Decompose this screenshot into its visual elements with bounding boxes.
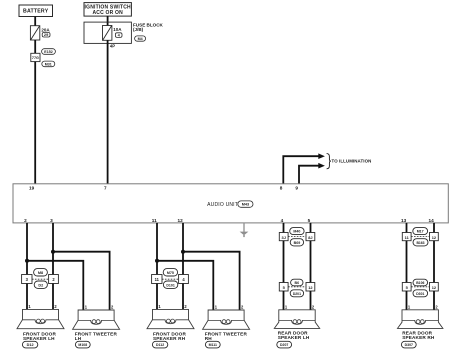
svg-text:AUDIO UNIT: AUDIO UNIT — [207, 202, 238, 208]
connector oval D307 — [401, 341, 416, 348]
svg-text:3: 3 — [50, 218, 53, 223]
svg-text:77G: 77G — [32, 56, 39, 60]
wire pin 8 to illumination — [283, 156, 318, 184]
fuse F2 10A — [103, 26, 112, 41]
wire 8J to cell 12 — [310, 241, 312, 283]
battery B1 — [19, 5, 53, 17]
connector oval D201 — [290, 290, 303, 297]
wire pin 13 down — [406, 223, 408, 233]
wire cell4 to speaker pin 2 — [182, 284, 184, 310]
wire pin 14 down — [433, 223, 435, 233]
wire pin 2 down — [26, 223, 28, 275]
ground symbol — [240, 232, 249, 236]
arrow illumination 2 — [318, 163, 325, 169]
svg-text:4P: 4P — [110, 44, 115, 49]
connector M40/B69 cell 8J — [306, 233, 315, 241]
rear door speaker LH symbol — [274, 310, 319, 329]
connector oval M111 — [205, 341, 220, 348]
connector oval D112 — [152, 341, 167, 348]
connector oval M17 — [413, 228, 428, 235]
connector M17/B163 cell 11 — [402, 233, 411, 241]
connector B6/D201 cell 12 — [306, 283, 315, 292]
svg-text:TO ILLUMINATION: TO ILLUMINATION — [332, 159, 372, 164]
svg-text:13: 13 — [401, 218, 407, 223]
dashed connector divider — [288, 236, 306, 238]
svg-text:5: 5 — [308, 218, 311, 223]
connector oval M8 — [34, 269, 48, 276]
svg-text:B69: B69 — [294, 241, 301, 245]
front door speaker LH symbol — [17, 309, 64, 328]
svg-text:D112: D112 — [156, 343, 164, 347]
connector oval D2 — [34, 281, 47, 288]
svg-text:M43: M43 — [242, 203, 249, 207]
connector oval M75 — [163, 269, 177, 276]
connector oval M4 — [135, 36, 146, 41]
ignition switch source box — [84, 3, 131, 17]
wire cell12 to speaker pin 2 — [310, 291, 312, 310]
connector oval M43 — [238, 201, 253, 207]
wire cell12 to cell 12 — [433, 241, 435, 283]
wire cell2 to speaker pin 2 — [52, 284, 54, 310]
branch wire to tweeter LH pin 1 — [27, 261, 83, 311]
svg-text:9: 9 — [295, 185, 298, 190]
connector M75/D101 cell 11 — [152, 275, 162, 284]
connector oval D301 — [413, 290, 428, 297]
svg-text:8: 8 — [280, 185, 283, 190]
svg-text:D12: D12 — [27, 343, 34, 347]
svg-text:11: 11 — [155, 277, 160, 282]
svg-text:M111: M111 — [209, 343, 217, 347]
svg-text:M108: M108 — [78, 343, 87, 347]
connector oval D101 — [163, 281, 177, 288]
svg-text:RH: RH — [205, 336, 213, 341]
connector oval B163 — [413, 239, 428, 246]
svg-text:D307: D307 — [405, 343, 413, 347]
svg-text:B163: B163 — [416, 241, 424, 245]
svg-text:SPEAKER LH: SPEAKER LH — [23, 336, 55, 341]
svg-text:M17: M17 — [417, 230, 424, 234]
connector oval D12 — [22, 341, 37, 348]
connector M8/D2 cell 3 — [22, 275, 32, 284]
wire pin 9 to illumination — [299, 166, 319, 184]
wire pin 5 down — [310, 223, 312, 233]
junction dot on pin2 wire — [25, 259, 29, 263]
connector M40/B69 cell 3J — [279, 233, 288, 241]
connector oval M108 — [75, 341, 90, 348]
connector oval B6 — [291, 279, 303, 286]
wire cell5 to speaker pin 1 — [406, 291, 408, 310]
wire pin 12 down — [182, 223, 184, 275]
fuse F1 20A — [30, 26, 39, 40]
dashed connector divider — [288, 286, 306, 288]
junction dot on pin12 wire — [181, 250, 185, 254]
svg-text:12: 12 — [177, 218, 183, 223]
connector oval D207 — [277, 341, 292, 348]
wire cell12 to speaker pin 2 — [433, 291, 435, 310]
svg-text:M8: M8 — [38, 271, 43, 275]
connector oval M31 — [42, 61, 55, 67]
connector M8/D2 cell 2 — [49, 275, 59, 284]
svg-text:M40: M40 — [293, 230, 300, 234]
svg-text:SPEAKER RH: SPEAKER RH — [402, 335, 435, 340]
wire battery to fuse F1 — [34, 17, 36, 26]
wire cell5 to speaker pin 1 — [283, 291, 285, 310]
svg-text:8J: 8J — [308, 235, 312, 240]
arrow illumination 1 — [318, 153, 325, 159]
ground stem — [243, 223, 245, 232]
connector B106/D301 cell 5 — [402, 283, 411, 292]
svg-text:4: 4 — [281, 218, 284, 223]
svg-text:7: 7 — [104, 185, 107, 190]
wire pin 3 down — [52, 223, 54, 275]
svg-text:M31: M31 — [45, 62, 52, 66]
rear door speaker RH symbol — [398, 310, 443, 329]
svg-text:10A: 10A — [113, 27, 122, 32]
connector B6/D201 cell 5 — [279, 283, 288, 292]
branch wire to tweeter RH pin 2 — [183, 252, 240, 311]
connector oval E152 — [42, 49, 56, 55]
svg-text:SPEAKER LH: SPEAKER LH — [278, 335, 310, 340]
wire cell11 to speaker pin 1 — [156, 284, 158, 310]
connector oval B106 — [413, 279, 428, 286]
svg-text:19: 19 — [29, 185, 35, 190]
svg-text:(J/B): (J/B) — [133, 27, 144, 32]
front tweeter RH symbol — [203, 310, 250, 329]
wire fuse block to audio unit pin 7 — [107, 40, 109, 184]
connector B106/D301 cell 12 — [430, 283, 439, 292]
dashed connector divider — [162, 278, 179, 280]
connector oval B69 — [290, 239, 303, 246]
branch wire to tweeter LH pin 2 — [53, 252, 110, 311]
wire 3J to cell 5 — [283, 241, 285, 283]
svg-text:D101: D101 — [166, 283, 174, 287]
svg-text:SPEAKER RH: SPEAKER RH — [153, 336, 186, 341]
wire 77G to audio unit pin 19 — [34, 62, 36, 184]
junction dot on pin11 wire — [155, 259, 159, 263]
connector M17/B163 cell 12 — [430, 233, 439, 241]
svg-text:M75: M75 — [167, 271, 174, 275]
svg-text:D301: D301 — [416, 292, 424, 296]
connector oval M40 — [290, 228, 304, 235]
svg-text:11: 11 — [152, 218, 157, 223]
svg-text:14: 14 — [428, 218, 434, 223]
audio unit U1 box — [13, 184, 448, 223]
svg-text:B6: B6 — [294, 281, 299, 285]
wire cell11 to cell 5 — [406, 241, 408, 283]
wire pin 4 down — [283, 223, 285, 233]
dashed connector divider — [411, 286, 429, 288]
wire F1 to connector 77G — [34, 40, 36, 53]
wire pin 11 down — [156, 223, 158, 275]
dashed connector divider — [411, 236, 429, 238]
svg-text:BATTERY: BATTERY — [23, 9, 49, 15]
svg-text:D207: D207 — [280, 343, 288, 347]
dashed connector divider — [32, 278, 49, 280]
junction dot on pin3 wire — [51, 250, 55, 254]
branch wire to tweeter RH pin 1 — [157, 261, 213, 311]
front tweeter LH symbol — [73, 310, 120, 329]
svg-text:M4: M4 — [138, 37, 143, 41]
svg-text:LH: LH — [75, 336, 82, 341]
fuse block J/B box — [84, 22, 131, 43]
connector M75/D101 cell 4 — [179, 275, 189, 284]
fuse number pill 29 — [42, 32, 50, 37]
svg-text:D2: D2 — [38, 283, 43, 287]
svg-text:E152: E152 — [44, 50, 52, 54]
front door speaker RH symbol — [147, 309, 194, 328]
svg-text:ACC OR ON: ACC OR ON — [92, 10, 123, 16]
svg-text:B106: B106 — [416, 281, 424, 285]
wire ignition to fuse block — [107, 16, 109, 25]
svg-text:2: 2 — [24, 218, 27, 223]
svg-text:D201: D201 — [293, 292, 301, 296]
inline connector 77G — [31, 53, 40, 61]
fuse number pill 4 — [115, 33, 122, 38]
wire cell3 to speaker pin 1 — [26, 284, 28, 310]
svg-text:3J: 3J — [282, 235, 286, 240]
brace — [327, 154, 331, 169]
